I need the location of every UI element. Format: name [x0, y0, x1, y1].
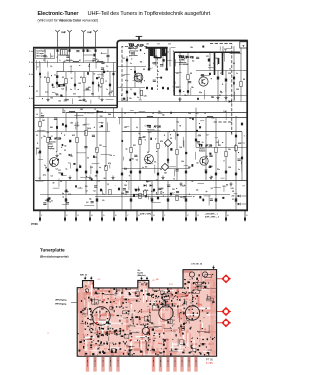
resistor R13 — [76, 137, 78, 142]
svg-text:5: 5 — [29, 98, 30, 100]
capacitor C37 — [185, 171, 187, 174]
svg-text:470: 470 — [68, 194, 71, 196]
arrow KW a — [84, 276, 86, 279]
svg-text:1: 1 — [41, 215, 42, 217]
resistor R34 — [139, 193, 141, 198]
resistor R37 — [144, 190, 146, 195]
capacitor C106 — [109, 84, 111, 87]
antenna UHF dipole 2a — [83, 32, 85, 47]
transistor T52 — [199, 77, 208, 86]
wires top-right box — [118, 66, 146, 68]
corner terminal box T — [240, 42, 247, 48]
ground G4 — [101, 98, 103, 100]
svg-text:0,5: 0,5 — [172, 324, 174, 326]
capacitor C41b — [241, 123, 243, 126]
chassis ground bus bottom — [33, 209, 248, 211]
resistor R102 — [65, 78, 67, 83]
svg-text:0,25: 0,25 — [215, 58, 218, 60]
svg-text:C30: C30 — [236, 89, 239, 91]
PCB board outline — [77, 270, 216, 357]
svg-text:3: 3 — [77, 215, 78, 217]
svg-text:10k: 10k — [140, 61, 143, 63]
pot centre dashed line — [157, 58, 159, 90]
svg-text:Tunerplatte: Tunerplatte — [40, 248, 65, 253]
coil circle small 2 — [202, 272, 207, 277]
svg-text:R8: R8 — [190, 73, 192, 75]
svg-text:2n: 2n — [192, 58, 194, 60]
svg-text:1k: 1k — [229, 68, 231, 70]
svg-text:22k: 22k — [61, 96, 64, 98]
svg-text:12p: 12p — [158, 111, 161, 113]
svg-text:12p: 12p — [196, 189, 199, 191]
capacitor C33 — [215, 173, 217, 176]
svg-text:+12V: +12V — [183, 299, 188, 301]
svg-text:C4: C4 — [88, 66, 90, 68]
svg-text:18k: 18k — [191, 87, 194, 89]
svg-text:C29: C29 — [228, 73, 231, 75]
inductor L2 — [97, 111, 103, 112]
terminal T on shield top — [138, 36, 140, 40]
svg-text:L7: L7 — [95, 149, 97, 151]
svg-text:0,5: 0,5 — [102, 200, 104, 202]
svg-text:1n: 1n — [70, 89, 72, 91]
schematic outer border right — [246, 41, 248, 211]
svg-text:4,7p: 4,7p — [151, 191, 154, 193]
svg-text:2n: 2n — [156, 194, 158, 196]
svg-text:R31: R31 — [218, 145, 221, 147]
svg-text:470: 470 — [133, 93, 136, 95]
pot wall foot 2 — [166, 68, 168, 70]
svg-text:C21: C21 — [122, 58, 125, 60]
capacitor C63 — [118, 188, 120, 191]
svg-text:R2: R2 — [71, 156, 73, 158]
svg-text:(Bestückungsseite): (Bestückungsseite) — [40, 255, 69, 259]
PCB connector pin strips pink — [86, 357, 89, 372]
svg-text:D1: D1 — [64, 150, 66, 152]
svg-text:33: 33 — [87, 157, 89, 159]
resistor R14 — [85, 130, 87, 135]
svg-text:100: 100 — [78, 83, 81, 85]
svg-text:6,8: 6,8 — [145, 167, 147, 169]
svg-text:33: 33 — [191, 181, 193, 183]
svg-text:L2: L2 — [94, 109, 96, 111]
svg-text:470: 470 — [197, 52, 200, 54]
svg-text:4,7p: 4,7p — [124, 168, 127, 170]
svg-text:1k: 1k — [36, 135, 38, 137]
svg-text:3: 3 — [197, 215, 198, 217]
svg-text:10n: 10n — [43, 136, 46, 138]
svg-text:R2: R2 — [211, 177, 213, 179]
svg-text:68: 68 — [104, 178, 106, 180]
pot circuit H bar — [154, 57, 161, 59]
svg-text:470: 470 — [216, 142, 219, 144]
PCB light channels — [119, 292, 134, 293]
svg-text:12p: 12p — [211, 97, 214, 99]
resistor R33 — [235, 145, 237, 150]
capacitor C34 — [225, 171, 227, 174]
svg-text:4,7p: 4,7p — [173, 331, 176, 333]
svg-text:C43: C43 — [80, 109, 83, 111]
capacitor C104 — [74, 84, 76, 87]
capacitor C16 — [96, 171, 98, 174]
svg-text:C7: C7 — [36, 91, 38, 93]
capacitor C103 — [56, 82, 58, 85]
svg-text:4,7p: 4,7p — [45, 92, 48, 94]
svg-text:2: 2 — [187, 215, 188, 217]
tuner can circle 2 — [159, 306, 173, 320]
resistor R53 — [240, 81, 242, 86]
svg-text:220: 220 — [205, 170, 208, 172]
resistor R22 — [139, 139, 141, 144]
resistor R24 — [176, 149, 178, 154]
svg-text:L52: L52 — [176, 73, 179, 75]
arrow KW b — [90, 276, 92, 279]
pot lower component row — [146, 87, 148, 89]
resistor R31 — [215, 147, 217, 152]
resistor R11 — [39, 121, 41, 126]
svg-text:10k: 10k — [205, 156, 208, 158]
trimmer circle — [142, 327, 149, 334]
svg-text:1k: 1k — [49, 202, 51, 204]
svg-text:Electronic-Tuner: Electronic-Tuner — [38, 11, 79, 17]
svg-text:AF 106: AF 106 — [154, 126, 162, 129]
antenna coupling blob a2 — [69, 49, 71, 52]
svg-text:5p: 5p — [138, 133, 140, 135]
diode D1 — [69, 154, 72, 156]
capacitor C60 — [233, 77, 235, 80]
svg-text:68: 68 — [60, 181, 62, 183]
oscillator shield dashed — [231, 122, 233, 136]
balun transformer Tr1 — [60, 50, 67, 56]
svg-text:UHF: UHF — [61, 32, 66, 34]
svg-text:220: 220 — [164, 172, 167, 174]
svg-text:0,25: 0,25 — [231, 188, 234, 190]
svg-text:240 Ω sym.: 240 Ω sym. — [36, 54, 44, 57]
capacitor C25b — [121, 173, 123, 176]
antenna coupling blob b1 — [83, 49, 85, 52]
svg-text:10k: 10k — [184, 95, 187, 97]
oscillator box wall top — [174, 51, 240, 53]
svg-text:R42: R42 — [50, 127, 53, 129]
svg-text:C41: C41 — [42, 120, 45, 122]
wires top-left box — [35, 62, 116, 64]
svg-text:T3: T3 — [199, 144, 203, 148]
svg-text:0,5: 0,5 — [196, 163, 198, 165]
capacitor C43b — [235, 135, 237, 138]
svg-text:100: 100 — [190, 303, 193, 305]
svg-text:R4: R4 — [98, 77, 100, 79]
resistor R23 — [157, 143, 159, 148]
svg-text:33: 33 — [209, 65, 211, 67]
transistor T51 — [134, 73, 143, 82]
svg-text:5p: 5p — [62, 197, 64, 199]
svg-text:1n: 1n — [173, 316, 175, 318]
capacitor C17 — [61, 173, 63, 176]
svg-text:(UHF + VHF) → 5: (UHF + VHF) → 5 — [205, 217, 219, 219]
capacitor C13 — [65, 125, 67, 128]
svg-text:33: 33 — [154, 162, 156, 164]
svg-text:22k: 22k — [66, 60, 69, 62]
svg-text:2n: 2n — [171, 349, 173, 351]
wire D6 stub — [235, 195, 237, 205]
capacitor C55 — [179, 90, 181, 93]
osc pot wall 1 — [214, 53, 216, 76]
svg-text:12p: 12p — [94, 332, 97, 334]
arrow mid a — [141, 277, 143, 280]
PCB board base — [77, 270, 216, 357]
red test point marker 2 — [217, 311, 231, 313]
svg-text:D6: D6 — [232, 191, 234, 193]
svg-text:5p: 5p — [65, 168, 67, 170]
svg-text:C4: C4 — [51, 175, 53, 177]
capacitor C14 — [76, 169, 78, 172]
svg-text:2: 2 — [66, 215, 67, 217]
capacitor C26 — [167, 159, 169, 162]
svg-text:22k: 22k — [123, 318, 126, 320]
svg-text:1,5k: 1,5k — [179, 147, 182, 149]
svg-text:22k: 22k — [59, 153, 62, 155]
capacitor C38 — [145, 195, 147, 198]
svg-text:22k: 22k — [141, 285, 144, 287]
svg-text:3,3: 3,3 — [136, 332, 138, 334]
svg-text:22k: 22k — [180, 197, 183, 199]
svg-text:4,7k: 4,7k — [88, 128, 91, 130]
tuner shield dashed enclosure — [122, 46, 147, 101]
svg-text:1,5: 1,5 — [50, 66, 52, 68]
svg-text:22k: 22k — [129, 98, 132, 100]
capacitor C59 — [225, 79, 227, 82]
svg-text:D3: D3 — [167, 162, 169, 164]
svg-text:(Wird nicht für Valencia Color: (Wird nicht für Valencia Color verwendet… — [38, 19, 99, 23]
svg-text:68: 68 — [147, 152, 149, 154]
svg-text:1k: 1k — [173, 178, 175, 180]
stray pink mark left of board — [47, 332, 49, 335]
capacitor C66 — [153, 189, 155, 192]
antenna coupling blob b2 — [87, 49, 89, 52]
svg-text:C25: C25 — [176, 87, 179, 89]
choke L101 — [73, 61, 79, 62]
resistor R104 — [101, 78, 103, 83]
svg-text:5p: 5p — [206, 191, 208, 193]
svg-text:R13: R13 — [72, 135, 75, 137]
svg-text:C4: C4 — [64, 146, 66, 148]
svg-text:6: 6 — [115, 215, 116, 217]
capacitor C23 — [139, 171, 141, 174]
pot circuit shield wall 1 — [148, 47, 150, 68]
capacitor C42b — [241, 157, 243, 160]
svg-text:L7: L7 — [173, 193, 175, 195]
electrolytics bottom row — [47, 198, 49, 201]
svg-text:UHF: UHF — [87, 32, 92, 34]
PCB bottom component row — [79, 350, 81, 352]
antenna coupling blob b3 — [95, 49, 97, 52]
osc pot tuning stub — [218, 58, 220, 64]
svg-text:470: 470 — [138, 195, 141, 197]
svg-text:1n: 1n — [90, 345, 92, 347]
svg-text:12p: 12p — [136, 290, 139, 292]
PCB component rows black — [96, 334, 98, 335]
svg-text:L70: L70 — [146, 44, 149, 46]
inductor L5 — [207, 116, 213, 117]
grounds lower section — [56, 154, 58, 156]
schematic outer border top-left section — [33, 47, 118, 49]
svg-text:1k: 1k — [138, 301, 140, 303]
svg-text:C4: C4 — [93, 191, 95, 193]
svg-text:1,5k: 1,5k — [131, 47, 134, 49]
svg-text:10k: 10k — [95, 176, 98, 178]
svg-text:L3: L3 — [97, 60, 99, 62]
svg-text:2: 2 — [29, 62, 30, 64]
wiring detail lower-right section — [242, 185, 245, 187]
svg-text:L 75 L 76 L 74: L 75 L 76 L 74 — [191, 264, 202, 266]
svg-text:R2: R2 — [125, 194, 127, 196]
svg-text:1k: 1k — [164, 348, 166, 350]
pot circuit shield wall 2 — [153, 47, 155, 58]
transistor T2 — [145, 155, 154, 164]
right box rounded corner — [117, 41, 120, 44]
svg-text:L7: L7 — [105, 81, 107, 83]
tuner can circle 3 — [185, 306, 199, 320]
svg-text:4,7p: 4,7p — [109, 92, 112, 94]
svg-text:4p: 4p — [213, 63, 215, 65]
pot circuit shield wall 4 — [166, 47, 168, 68]
svg-text:4,7p: 4,7p — [81, 340, 84, 342]
svg-text:22k: 22k — [160, 189, 163, 191]
mixer diode ring D3 — [161, 163, 168, 170]
tuner can big circle — [92, 307, 110, 325]
resistor R15 — [96, 147, 98, 152]
svg-text:C34: C34 — [228, 167, 231, 169]
PCB left edge trace bar — [79, 288, 84, 356]
svg-text:470: 470 — [131, 53, 134, 55]
ground G7 — [179, 97, 181, 99]
capacitor C54 — [134, 93, 136, 96]
svg-text:L71: L71 — [157, 44, 160, 46]
antenna coupling blob a1 — [57, 49, 59, 52]
osc pot wall 2 — [222, 53, 224, 76]
svg-text:1k: 1k — [175, 335, 177, 337]
resistor R21 — [130, 147, 132, 152]
svg-text:3,3: 3,3 — [192, 61, 194, 63]
svg-text:T2: T2 — [147, 125, 151, 129]
svg-text:1n: 1n — [106, 89, 108, 91]
svg-text:33: 33 — [134, 112, 136, 114]
svg-text:470: 470 — [45, 200, 48, 202]
antenna feed wire a — [58, 54, 70, 56]
diode D51 — [229, 100, 232, 102]
svg-text:8,2: 8,2 — [86, 190, 88, 192]
capacitor C12 — [47, 169, 49, 172]
svg-text:8,2: 8,2 — [101, 123, 103, 125]
PCB top edge component row — [95, 292, 97, 293]
pot resonator fill left — [150, 48, 153, 56]
section divider double line upper — [33, 104, 118, 106]
svg-text:1,5k: 1,5k — [181, 161, 184, 163]
svg-text:100: 100 — [135, 47, 138, 49]
svg-text:0,25: 0,25 — [94, 157, 97, 159]
svg-text:1n: 1n — [54, 74, 56, 76]
capacitor C65 — [135, 189, 137, 192]
schematic divider vertical — [116, 44, 118, 108]
svg-text:220: 220 — [231, 195, 234, 197]
terminal pins below ground bus — [39, 211, 41, 222]
svg-text:C1: C1 — [43, 60, 45, 62]
oscillator box wall left — [173, 52, 175, 95]
svg-text:1,5k: 1,5k — [151, 324, 154, 326]
svg-text:12p: 12p — [220, 92, 223, 94]
svg-text:1n: 1n — [68, 162, 70, 164]
svg-text:220: 220 — [150, 198, 153, 200]
svg-text:R23: R23 — [160, 141, 163, 143]
resistor R36 — [109, 189, 111, 194]
pot circuit shield top bar — [146, 47, 168, 49]
svg-text:4,7: 4,7 — [79, 60, 81, 62]
PCB solder dots — [144, 282, 145, 283]
svg-text:4: 4 — [29, 86, 30, 88]
trimmer C107 — [39, 73, 41, 75]
svg-text:2,2: 2,2 — [206, 134, 208, 136]
svg-text:PT 30: PT 30 — [206, 358, 213, 362]
svg-text:3: 3 — [29, 74, 30, 76]
svg-text:AF 239: AF 239 — [54, 138, 62, 141]
svg-text:3,3: 3,3 — [173, 320, 175, 322]
svg-text:220: 220 — [100, 116, 103, 118]
capacitor C105 — [92, 82, 94, 85]
svg-text:1k: 1k — [94, 74, 96, 76]
svg-text:D2: D2 — [170, 138, 172, 140]
svg-text:4: 4 — [91, 215, 92, 217]
svg-text:(UHF + VHF): (UHF + VHF) — [140, 214, 151, 216]
svg-text:VHF-Eingang: VHF-Eingang — [55, 304, 66, 306]
svg-text:0,25: 0,25 — [144, 95, 147, 97]
svg-text:0,5: 0,5 — [167, 51, 169, 53]
svg-text:+12V (UHF) → 7: +12V (UHF) → 7 — [205, 214, 218, 216]
red test point marker 3 — [217, 322, 231, 324]
svg-text:12p: 12p — [176, 121, 179, 123]
ground G5 — [217, 96, 219, 98]
schematic outer border left — [33, 48, 35, 211]
PCB scattered component bodies — [204, 286, 206, 288]
svg-text:Osz.: Osz. — [140, 317, 145, 319]
svg-text:6,8: 6,8 — [233, 63, 235, 65]
svg-text:220: 220 — [99, 145, 102, 147]
svg-text:5p: 5p — [126, 148, 128, 150]
svg-text:1,5k: 1,5k — [145, 190, 148, 192]
coil circle small 1 — [189, 272, 194, 277]
svg-text:1,5k: 1,5k — [211, 117, 214, 119]
arrow UHF-Eingang — [71, 302, 77, 304]
svg-text:1: 1 — [164, 215, 165, 217]
svg-text:100: 100 — [85, 186, 88, 188]
resistor R51 — [140, 90, 142, 95]
schematic outer border top-right section — [121, 40, 248, 42]
svg-text:1n: 1n — [92, 61, 94, 63]
svg-text:1n: 1n — [160, 193, 162, 195]
transistor T1 — [50, 158, 59, 167]
svg-text:470: 470 — [56, 94, 59, 96]
svg-text:F 735: F 735 — [206, 361, 213, 365]
wire to D7 — [242, 203, 248, 205]
diode D4 — [144, 184, 147, 186]
svg-text:2,2: 2,2 — [109, 343, 111, 345]
wire above bus mid — [95, 196, 192, 198]
capacitor C58 — [217, 77, 219, 80]
svg-text:1n: 1n — [142, 167, 144, 169]
inductor L3 — [147, 116, 153, 117]
svg-text:1,5k: 1,5k — [82, 125, 85, 127]
svg-text:220: 220 — [97, 180, 100, 182]
antenna UHF dipole 1a — [57, 32, 59, 47]
